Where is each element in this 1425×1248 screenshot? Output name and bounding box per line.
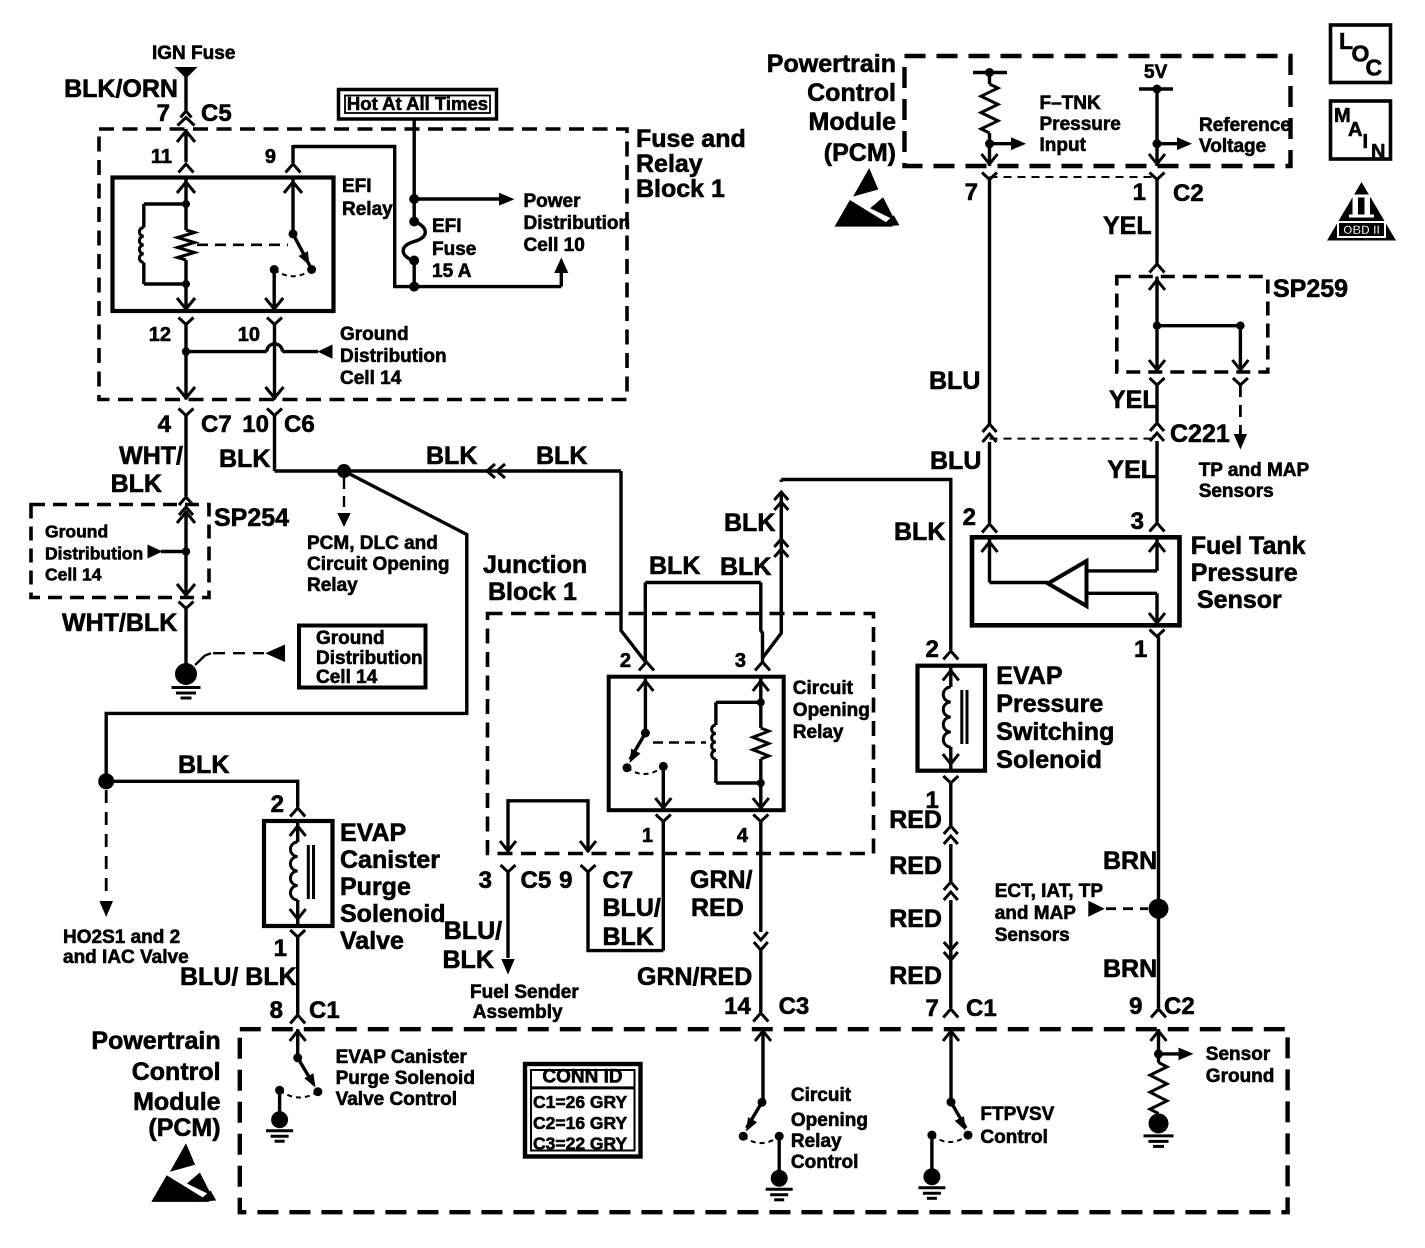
svg-text:C221: C221 [1170,420,1230,448]
connector junction pin 1 [642,815,671,848]
svg-text:Ground: Ground [340,324,409,345]
svg-text:N: N [1371,141,1385,163]
svg-text:Relay: Relay [636,150,703,178]
svg-text:Control: Control [980,1127,1048,1148]
ground PCM FTPVSV [918,1168,945,1198]
svg-text:Reference: Reference [1199,115,1291,136]
svg-text:F–TNK: F–TNK [1040,93,1102,114]
table CONN ID [525,1064,641,1157]
connector junction pin 3 [735,650,770,672]
svg-text:3: 3 [479,867,492,894]
Ground Distribution Cell 14 box [299,626,426,689]
wire BLK junction pin3 to EVAP PSS pin 2 [720,480,951,659]
dashed wire to TP and MAP sensors [1199,385,1310,502]
connector C221 dashed link [990,438,1158,440]
PCM FTPVSV control switch [927,1029,1054,1169]
ground PCM circuit opening relay control [766,1170,793,1200]
svg-text:Relay: Relay [793,722,844,743]
svg-text:Fuel Sender: Fuel Sender [470,982,579,1003]
svg-text:C3: C3 [779,993,810,1020]
connector SP259 exit left [1109,378,1165,414]
svg-text:BLK/ORN: BLK/ORN [64,75,178,103]
connector C7 pin 4 [158,409,232,439]
connector EVAP PSS pin 2 [925,636,958,663]
svg-text:RED: RED [889,962,942,990]
svg-text:3: 3 [735,650,746,672]
svg-text:4: 4 [158,411,172,438]
wire BLK from C6 to junction pin 2 [219,416,646,663]
splice SP254 dashed box [31,504,289,598]
connector relay pin 12 [149,318,194,400]
connector C3 pin 14 [753,1013,768,1022]
splice SP259 dashed box [1117,275,1348,372]
circuit opening relay actuation dashed link [653,741,706,743]
relay actuation dashed link [197,244,288,247]
symbol ESD warning top [835,168,900,227]
connector relay pin 11 [151,146,194,173]
svg-text:BRN: BRN [1103,847,1157,875]
arrow to Power Distribution Cell 10 [409,191,630,256]
relay U2 Circuit Opening Relay box [609,677,870,811]
connector EVAP PSS pin 1 [925,776,958,826]
wire pin10 exit arrow [266,387,284,398]
svg-text:Fuse: Fuse [432,239,476,260]
wire WHT/BLK lower label [62,609,177,637]
label Powertrain Control Module PCM bottom [91,1027,220,1142]
svg-text:A: A [1348,119,1362,141]
wire ground distribution tap [182,344,318,356]
PCM sensor ground resistor [1150,1029,1274,1113]
icon LOC box [1331,25,1391,83]
wire BRN FTP pin1 to PCM C2 pin 9 [1103,637,1195,1021]
svg-text:OBD II: OBD II [1343,223,1380,237]
svg-text:RED: RED [889,905,942,933]
svg-text:FTPVSV: FTPVSV [980,1104,1054,1125]
svg-text:2: 2 [963,504,976,531]
svg-text:Pressure: Pressure [1040,114,1121,135]
svg-text:1: 1 [642,825,653,847]
svg-text:C2: C2 [1164,993,1195,1020]
svg-text:11: 11 [151,146,172,168]
svg-text:and IAC Valve: and IAC Valve [63,947,189,968]
wire YEL SP259 to C221 [1155,384,1158,422]
svg-text:BLU/: BLU/ [603,894,661,922]
svg-text:Distribution: Distribution [524,213,631,234]
splice on GRN/RED [754,932,768,950]
relay resistor element [177,230,195,311]
svg-text:Cell 14: Cell 14 [316,667,378,688]
svg-text:9: 9 [559,867,572,894]
svg-text:3: 3 [1131,508,1144,535]
svg-text:C5: C5 [521,867,552,894]
fuse EFI Fuse 15 A [403,199,476,292]
svg-text:BLU: BLU [929,367,980,395]
connector C2 pin 1 PCM [1133,173,1204,208]
wire WHT/BLK upper [111,416,186,499]
svg-text:IGN Fuse: IGN Fuse [152,43,235,64]
svg-text:RED: RED [889,806,942,834]
relay coil branch [139,178,195,285]
wire YEL PCM pin1 to SP259 [1103,180,1157,264]
icon MAIN box [1331,101,1391,163]
svg-text:C1: C1 [309,997,340,1024]
svg-text:7: 7 [925,995,938,1022]
svg-text:EVAP: EVAP [340,819,406,847]
connector C1 pin 8 [290,1015,305,1024]
connector C5 pin 7 [178,111,195,126]
svg-text:BLU: BLU [930,447,981,475]
splice C221 on BLU [983,424,997,442]
svg-text:BLK: BLK [443,946,494,974]
svg-text:(PCM): (PCM) [824,139,896,167]
wire BLU PCM pin7 to C221 [929,180,990,425]
svg-text:C3=22 GRY: C3=22 GRY [533,1134,628,1154]
svg-text:Control: Control [807,79,896,107]
junction block 1 dashed box [483,551,874,854]
svg-text:Block 1: Block 1 [636,175,725,203]
node IGN Fuse feed (BLK/ORN) [64,43,235,127]
svg-text:BLK: BLK [178,751,229,779]
svg-text:Sensor: Sensor [1197,586,1282,614]
FTP sensor internals [982,537,1166,625]
svg-text:Hot At All Times: Hot At All Times [347,93,488,114]
module PCM bottom dashed box [240,1029,1288,1212]
connector C221 on YEL [1150,420,1230,448]
svg-text:Power: Power [524,191,582,212]
PCM circuit opening relay control switch [739,1029,868,1173]
svg-text:1: 1 [1133,179,1146,206]
svg-text:CONN ID: CONN ID [542,1067,622,1088]
svg-text:Circuit Opening: Circuit Opening [307,554,450,575]
svg-text:EFI: EFI [342,176,372,197]
svg-text:10: 10 [242,411,269,438]
Fuse and Relay Block 1 dashed box [99,125,746,400]
connector relay pin 10 [238,318,282,400]
svg-text:C5: C5 [201,100,232,127]
svg-text:Cell 14: Cell 14 [45,565,102,585]
svg-text:Sensors: Sensors [995,925,1070,946]
svg-text:Cell 14: Cell 14 [340,368,402,389]
svg-text:Control: Control [791,1152,859,1173]
connector FTP pin 2 [982,524,997,533]
svg-text:12: 12 [149,324,171,346]
junction internal bus C5-3 to C7-9 [500,801,596,852]
svg-text:Opening: Opening [793,700,870,721]
svg-text:2: 2 [925,636,938,663]
ground G1 main [172,663,201,698]
svg-text:Powertrain: Powertrain [767,50,896,78]
connector C2 pin 9 [1151,1009,1166,1018]
svg-text:C7: C7 [201,411,232,438]
svg-text:EVAP: EVAP [996,662,1062,690]
wire BLU C221 to FTP sensor pin 2 [930,442,990,531]
wire BLK loop above relay [645,552,762,662]
svg-text:Pressure: Pressure [1191,559,1298,587]
svg-text:BLK: BLK [724,509,775,537]
svg-text:BLU/: BLU/ [444,917,502,945]
svg-text:Solenoid: Solenoid [340,900,446,928]
svg-text:WHT/: WHT/ [119,442,183,470]
sensor U3 Fuel Tank Pressure Sensor box [972,532,1306,625]
connector C6 pin 10 [242,409,314,439]
splice BLK upper [774,492,788,510]
wire GRN/RED relay pin4 to PCM C3 pin 14 [637,822,809,1021]
splice RED 1 [944,826,958,844]
ground PCM sensor ground [1144,1113,1174,1146]
wire C5 to relay pin 11 [177,129,195,162]
svg-text:Module: Module [809,108,897,136]
svg-text:9: 9 [1129,993,1142,1020]
svg-text:Ground: Ground [316,628,385,649]
svg-text:Assembly: Assembly [473,1002,563,1023]
dashed link from Ground Distribution Cell 14 box [195,645,285,666]
svg-text:WHT/BLK: WHT/BLK [62,609,177,637]
svg-text:Junction: Junction [483,551,587,579]
dashed arrow to PCM DLC and Circuit Opening Relay [307,478,450,596]
connector FTP pin 3 [1150,523,1165,532]
connector junction C5 pin 3 [479,865,552,894]
svg-text:15 A: 15 A [432,261,472,282]
svg-text:BLK: BLK [536,442,587,470]
PCM F-TNK pressure input resistor [973,68,1121,166]
svg-text:Sensor: Sensor [1206,1044,1271,1065]
svg-text:YEL: YEL [1103,212,1152,240]
svg-text:Solenoid: Solenoid [996,746,1102,774]
Hot At All Times tag [339,90,497,120]
svg-text:Powertrain: Powertrain [91,1027,220,1055]
relay U1 EFI Relay box [113,176,394,311]
svg-text:Ground: Ground [45,522,108,542]
svg-text:7: 7 [965,179,978,206]
svg-text:10: 10 [238,324,260,346]
svg-text:BLK: BLK [426,442,477,470]
svg-text:BLK: BLK [603,923,654,951]
connector C2 pin 7 PCM [965,173,1157,207]
svg-text:Sensors: Sensors [1199,481,1274,502]
svg-text:Block 1: Block 1 [488,578,577,606]
splice RED 2 [944,882,958,900]
arrow to Ground Distribution Cell 14 [318,324,447,389]
symbol ESD warning bottom [151,1143,216,1202]
svg-text:Purge Solenoid: Purge Solenoid [336,1068,475,1089]
svg-text:EVAP Canister: EVAP Canister [336,1047,468,1068]
splice BLK lower [774,539,788,557]
svg-text:8: 8 [270,997,283,1024]
wire BLK branch to EVAP purge solenoid [98,471,467,818]
svg-text:and MAP: and MAP [995,903,1077,924]
connector SP254 exit [179,602,194,665]
svg-text:BLK: BLK [720,553,771,581]
solenoid EVAP Canister Purge Solenoid Valve [264,819,446,955]
svg-text:BLK: BLK [219,445,270,473]
svg-text:Relay: Relay [342,199,393,220]
svg-text:BLK: BLK [111,470,162,498]
svg-text:Pressure: Pressure [996,690,1103,718]
svg-text:C6: C6 [284,411,315,438]
solenoid EVAP Pressure Switching Solenoid [918,662,1115,774]
svg-text:HO2S1 and 2: HO2S1 and 2 [63,927,180,948]
connector relay pin 9 [265,146,301,173]
connector junction C7 pin 9 [559,865,633,894]
svg-text:Module: Module [133,1088,221,1116]
wire BLU/BLK relay pin1 to junction C7 pin 9 [588,822,663,952]
svg-text:2: 2 [620,650,631,672]
svg-text:Fuse and: Fuse and [636,125,746,153]
wire hot feed from Hot At All Times [413,119,416,199]
svg-text:Distribution: Distribution [316,648,423,669]
connector junction pin 2 [620,650,654,672]
svg-text:5V: 5V [1144,62,1168,83]
svg-text:TP and MAP: TP and MAP [1199,460,1310,481]
svg-text:14: 14 [724,993,751,1020]
PCM EVAP canister purge driver switch [275,1029,475,1112]
svg-text:Input: Input [1040,135,1087,156]
circuit opening relay switch [623,677,672,810]
connector EVAP purge pin 2 [290,808,305,817]
splice RED 3 [944,942,958,960]
svg-text:GRN/: GRN/ [690,866,753,894]
icon OBD II triangle [1327,182,1396,241]
wire YEL C221 to FTP sensor pin 3 [1107,441,1157,535]
svg-text:(PCM): (PCM) [148,1114,220,1142]
dashed arrow to ECT IAT TP and MAP sensors [995,881,1148,946]
svg-text:Switching: Switching [996,718,1114,746]
wire BLU/BLK to fuel sender assembly [443,872,580,1023]
svg-text:I: I [1363,131,1369,153]
ground PCM purge driver [266,1111,293,1141]
connector junction pin 4 [737,815,768,848]
svg-text:PCM, DLC and: PCM, DLC and [307,533,438,554]
label Powertrain Control Module PCM top [767,50,896,167]
wire pin12 exit arrow [177,387,195,398]
splice chevrons on BLK horizontal [487,464,505,478]
SP254 internal wire [177,511,195,596]
svg-text:SP254: SP254 [214,504,289,532]
svg-text:BRN: BRN [1103,955,1157,983]
SP254 ground distribution feed arrow [45,522,186,585]
svg-text:Valve Control: Valve Control [336,1089,457,1110]
SP259 internal wires [1149,277,1248,373]
wire relay pin 9 to EFI fuse node [293,145,561,287]
svg-text:Control: Control [132,1058,221,1086]
wire BLU/BLK to PCM C1 [180,963,340,1024]
svg-text:YEL: YEL [1107,456,1156,484]
svg-text:RED: RED [889,852,942,880]
svg-text:EFI: EFI [432,216,462,237]
svg-text:1: 1 [274,935,287,962]
connector EVAP purge pin 1 [274,930,306,1014]
svg-text:Relay: Relay [791,1131,842,1152]
svg-text:Opening: Opening [791,1110,868,1131]
svg-text:BLK: BLK [649,552,700,580]
svg-text:Fuel Tank: Fuel Tank [1191,532,1306,560]
svg-text:BLK: BLK [894,518,945,546]
svg-text:1: 1 [1134,636,1147,663]
relay switch [265,178,316,312]
wire RED chain to PCM C1 pin 7 [889,806,996,1022]
dashed arrow to HO2S1 and IAC [63,790,189,968]
svg-text:Cell 10: Cell 10 [524,235,585,256]
svg-text:C2: C2 [1173,180,1204,207]
svg-text:RED: RED [691,894,744,922]
svg-text:C1: C1 [966,995,997,1022]
svg-text:4: 4 [737,825,749,847]
svg-text:Purge: Purge [340,873,411,901]
svg-text:SP259: SP259 [1273,275,1348,303]
circuit opening relay coil and resistor [712,677,769,810]
svg-text:Canister: Canister [340,846,440,874]
connector FTP pin 1 [1134,630,1164,664]
svg-text:7: 7 [157,100,170,127]
svg-text:Valve: Valve [340,927,404,955]
svg-text:9: 9 [265,146,276,168]
svg-text:C: C [1366,55,1383,81]
svg-text:ECT, IAT, TP: ECT, IAT, TP [995,881,1104,902]
svg-text:Ground: Ground [1206,1066,1275,1087]
module PCM top dashed box [905,56,1291,166]
connector C1 pin 7 [943,1009,958,1018]
svg-text:Relay: Relay [307,575,358,596]
svg-text:Circuit: Circuit [791,1085,852,1106]
node BLK junction dot [337,464,351,478]
svg-text:Voltage: Voltage [1199,136,1266,157]
svg-text:2: 2 [271,791,284,818]
PCM 5V reference voltage [1139,62,1291,166]
svg-text:GRN/RED: GRN/RED [637,963,752,991]
svg-text:C1=26 GRY: C1=26 GRY [533,1092,628,1112]
arrow up to Power Distribution Cell 10 [554,258,568,287]
svg-text:C2=16 GRY: C2=16 GRY [533,1113,628,1133]
svg-text:BLU/ BLK: BLU/ BLK [180,963,297,991]
svg-text:Circuit: Circuit [793,678,854,699]
connector SP259 exit right [1233,378,1248,385]
splice entry SP254 [179,497,193,515]
svg-text:C7: C7 [603,867,634,894]
connector into SP259 [1150,264,1165,273]
svg-text:YEL: YEL [1109,386,1158,414]
svg-text:Distribution: Distribution [340,346,447,367]
svg-text:Distribution: Distribution [45,544,143,564]
